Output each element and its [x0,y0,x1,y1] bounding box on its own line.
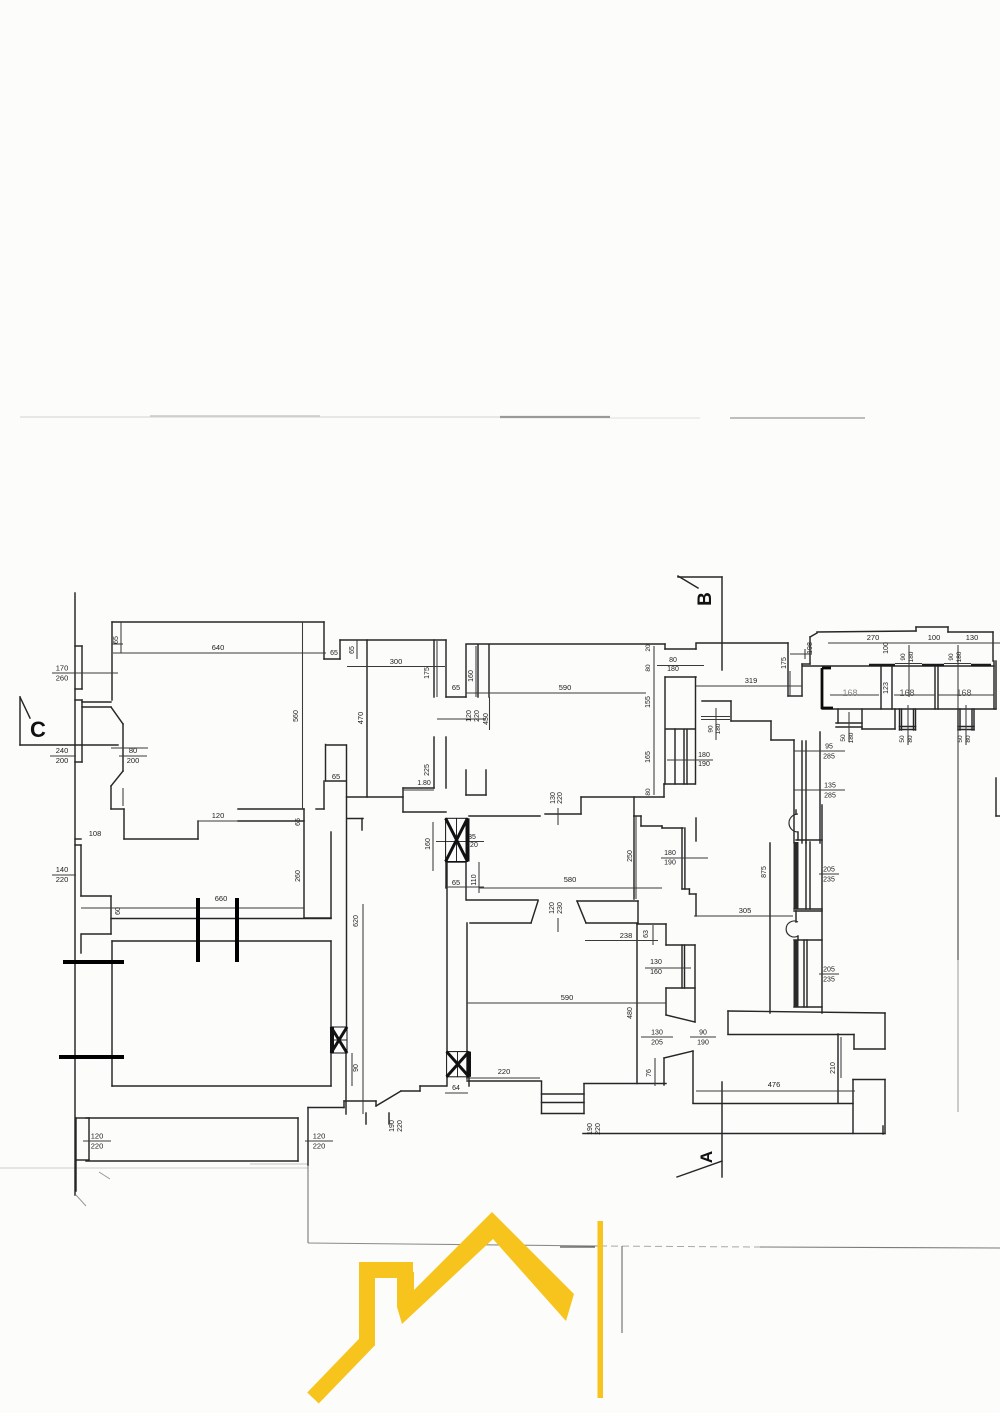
svg-text:35: 35 [468,834,476,841]
svg-text:180: 180 [956,651,963,662]
svg-text:450: 450 [483,713,490,725]
svg-text:200: 200 [127,756,140,765]
svg-text:80: 80 [645,664,652,672]
svg-text:168: 168 [956,688,971,698]
svg-text:120: 120 [313,1132,326,1141]
svg-text:120: 120 [91,1132,104,1141]
svg-text:90: 90 [948,653,955,661]
svg-text:205: 205 [651,1040,663,1047]
svg-text:620: 620 [353,915,360,927]
svg-text:220: 220 [91,1142,104,1151]
svg-text:260: 260 [295,870,302,882]
svg-text:300: 300 [390,657,403,666]
svg-text:190: 190 [587,1123,594,1135]
svg-text:120: 120 [549,902,556,914]
svg-text:180: 180 [664,850,676,857]
svg-text:130: 130 [550,792,557,804]
svg-text:50: 50 [840,734,847,742]
svg-text:205: 205 [823,967,835,974]
svg-text:220: 220 [466,842,478,849]
svg-text:160: 160 [468,670,475,682]
svg-text:235: 235 [823,877,835,884]
svg-text:260: 260 [56,674,69,683]
svg-text:65: 65 [349,646,356,654]
svg-text:130: 130 [966,633,979,642]
svg-text:63: 63 [643,930,650,938]
svg-text:640: 640 [212,643,225,652]
svg-text:285: 285 [823,754,835,761]
svg-text:80: 80 [645,788,652,796]
svg-text:200: 200 [56,756,69,765]
svg-text:319: 319 [745,676,758,685]
svg-text:C: C [30,717,46,742]
svg-text:210: 210 [830,1062,837,1074]
svg-text:220: 220 [498,1067,511,1076]
svg-text:180: 180 [715,723,722,734]
svg-text:120: 120 [466,710,473,722]
svg-text:190: 190 [664,860,676,867]
svg-text:580: 580 [564,875,577,884]
svg-text:110: 110 [471,874,478,885]
svg-text:20: 20 [645,644,652,652]
svg-text:65: 65 [113,636,120,644]
svg-text:80: 80 [129,746,137,755]
svg-text:B: B [695,592,716,606]
svg-text:80: 80 [965,735,972,743]
svg-text:123: 123 [883,682,890,694]
svg-text:65: 65 [452,683,460,692]
svg-text:135: 135 [824,783,836,790]
svg-text:65: 65 [332,772,340,781]
svg-text:190: 190 [389,1120,396,1132]
svg-text:A: A [697,1151,716,1163]
svg-text:220: 220 [557,792,564,804]
svg-text:875: 875 [761,866,768,878]
svg-text:476: 476 [768,1080,781,1089]
svg-text:80: 80 [907,735,914,743]
svg-text:235: 235 [823,977,835,984]
svg-text:220: 220 [474,710,481,722]
svg-text:160: 160 [425,838,432,850]
svg-text:100: 100 [883,642,890,654]
svg-text:90: 90 [699,1030,707,1037]
svg-text:90: 90 [900,653,907,661]
svg-text:76: 76 [646,1069,653,1077]
svg-text:60: 60 [115,907,122,915]
svg-text:198: 198 [807,642,814,654]
svg-text:205: 205 [823,867,835,874]
svg-text:238: 238 [620,931,633,940]
svg-text:130: 130 [650,959,662,966]
svg-text:180: 180 [848,732,855,743]
svg-text:220: 220 [313,1142,326,1151]
svg-text:240: 240 [56,746,69,755]
svg-text:470: 470 [356,712,365,725]
svg-text:590: 590 [561,993,574,1002]
svg-text:220: 220 [397,1120,404,1132]
svg-text:80: 80 [669,657,677,664]
svg-text:130: 130 [651,1030,663,1037]
svg-text:64: 64 [452,1085,460,1092]
svg-text:160: 160 [650,969,662,976]
svg-text:108: 108 [89,829,102,838]
svg-text:220: 220 [56,875,69,884]
svg-text:120: 120 [212,811,225,820]
svg-text:225: 225 [424,764,431,776]
svg-text:220: 220 [595,1123,602,1135]
svg-text:90: 90 [353,1064,360,1072]
svg-text:65: 65 [330,650,338,657]
svg-text:175: 175 [424,667,431,679]
svg-text:168: 168 [842,688,857,698]
svg-text:100: 100 [928,633,941,642]
svg-text:50: 50 [957,735,964,743]
svg-text:95: 95 [825,744,833,751]
svg-text:168: 168 [899,688,914,698]
svg-text:1.80: 1.80 [417,780,431,787]
svg-text:270: 270 [867,633,880,642]
svg-text:590: 590 [559,683,572,692]
svg-text:65: 65 [295,818,302,826]
svg-text:480: 480 [627,1007,634,1019]
svg-text:175: 175 [781,657,788,669]
svg-text:285: 285 [824,793,836,800]
svg-text:180: 180 [667,666,679,673]
svg-text:170: 170 [56,664,69,673]
svg-text:190: 190 [697,1040,709,1047]
svg-text:305: 305 [739,906,752,915]
svg-text:230: 230 [557,902,564,914]
svg-text:180: 180 [908,651,915,662]
svg-text:250: 250 [627,850,634,862]
svg-text:50: 50 [899,735,906,743]
svg-text:560: 560 [293,710,300,722]
svg-text:90: 90 [708,725,715,733]
svg-text:660: 660 [215,894,228,903]
svg-text:190: 190 [698,761,710,768]
svg-text:65: 65 [452,878,460,887]
svg-text:165: 165 [645,751,652,763]
svg-text:155: 155 [645,696,652,708]
svg-text:180: 180 [698,752,710,759]
svg-text:140: 140 [56,865,69,874]
